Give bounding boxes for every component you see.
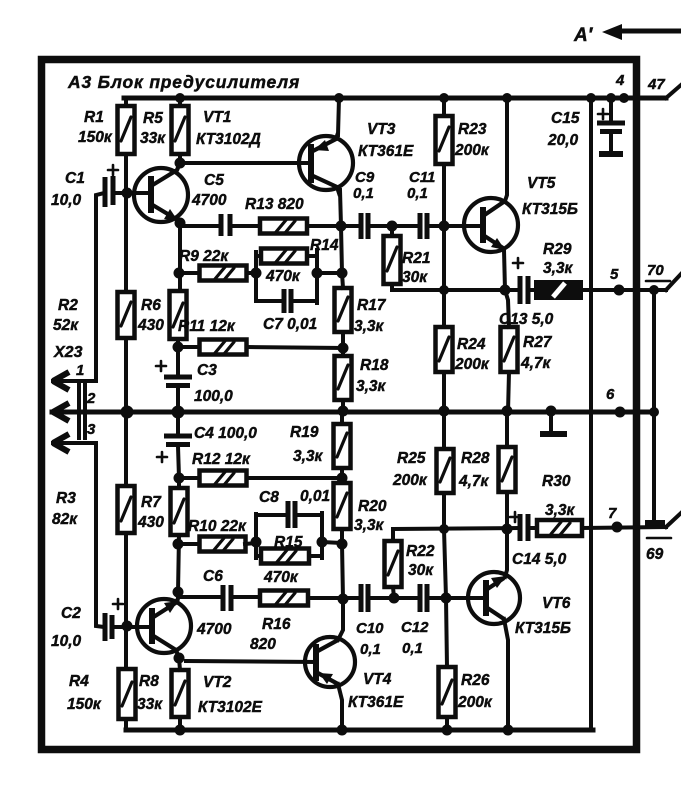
node R8 on bottom rail xyxy=(175,725,186,736)
node VT2 emitter xyxy=(173,587,184,598)
resistor R27 xyxy=(501,327,518,372)
svg-text:R4: R4 xyxy=(69,673,89,690)
wire R6 bottom xyxy=(176,339,180,374)
capacitor C15 xyxy=(609,98,613,151)
svg-text:4700: 4700 xyxy=(191,192,227,209)
node R10 line junction xyxy=(337,539,348,550)
resistor R30 xyxy=(537,520,582,536)
svg-text:200к: 200к xyxy=(454,142,490,159)
svg-text:4700: 4700 xyxy=(196,621,232,638)
capacitor C13 xyxy=(520,276,528,304)
node bracket right xyxy=(312,268,323,279)
wire C14 to R30 xyxy=(530,526,537,530)
svg-text:10,0: 10,0 xyxy=(51,192,82,209)
node R2 on rail xyxy=(121,406,134,419)
resistor R1 xyxy=(118,106,135,154)
node pin5 outside xyxy=(614,285,625,296)
wire R27 stubs xyxy=(505,290,509,412)
wire R18 bottom to rail xyxy=(341,400,345,412)
svg-text:VT4: VT4 xyxy=(363,671,392,688)
svg-text:200к: 200к xyxy=(457,694,493,711)
svg-text:С10: С10 xyxy=(356,620,384,637)
node VT3 collector on C9 line xyxy=(336,221,347,232)
wire R9 left xyxy=(178,271,199,275)
svg-text:3,3к: 3,3к xyxy=(354,517,385,534)
svg-text:5: 5 xyxy=(610,266,619,283)
svg-text:А′: А′ xyxy=(573,25,594,46)
wire R3 stubs xyxy=(124,412,128,671)
svg-text:А3 Блок предусилителя: А3 Блок предусилителя xyxy=(67,72,300,92)
svg-text:R3: R3 xyxy=(56,490,76,507)
wire C2 to VT2 base xyxy=(114,625,152,629)
wire R10 left xyxy=(178,542,199,546)
node VT3 emitter on rail xyxy=(334,93,344,103)
svg-text:R21: R21 xyxy=(402,250,430,267)
wire R10 right to bracket xyxy=(245,543,256,544)
svg-text:3,3к: 3,3к xyxy=(293,448,324,465)
svg-text:1: 1 xyxy=(76,362,84,379)
wire R17 stubs xyxy=(342,273,343,356)
wire R12 left xyxy=(179,476,199,480)
svg-text:R6: R6 xyxy=(141,297,161,314)
svg-text:820: 820 xyxy=(250,636,276,653)
svg-text:R12 12к: R12 12к xyxy=(192,451,251,468)
node R10 bracket left xyxy=(251,537,262,548)
capacitor C6 xyxy=(223,585,231,611)
svg-text:X23: X23 xyxy=(53,344,83,361)
svg-text:69: 69 xyxy=(646,546,664,563)
connector pin bars 2-3 xyxy=(79,416,85,438)
wire R14/C7 parallel bracket xyxy=(256,250,342,303)
wire R2 bottom to rail xyxy=(124,338,128,412)
svg-text:R17: R17 xyxy=(357,297,387,314)
wire column A upper xyxy=(124,154,128,292)
svg-text:52к: 52к xyxy=(53,317,79,334)
svg-text:R11 12к: R11 12к xyxy=(178,318,236,335)
node R12 at R19/R20 xyxy=(337,473,348,484)
wire R11 right xyxy=(247,347,343,348)
wire R4 bottom xyxy=(124,719,128,730)
capacitor C3 xyxy=(164,377,192,386)
resistor R3 xyxy=(118,486,135,533)
svg-text:0,01: 0,01 xyxy=(300,488,330,505)
svg-text:С1: С1 xyxy=(65,170,85,187)
svg-text:R28: R28 xyxy=(461,450,490,467)
wire C6 line left xyxy=(178,593,222,597)
svg-text:КТ3102Д: КТ3102Д xyxy=(196,131,261,148)
capacitor C7 xyxy=(284,289,291,313)
node R10 on column B xyxy=(173,539,184,550)
svg-text:4: 4 xyxy=(615,72,625,89)
wire pin5 to border xyxy=(581,288,666,292)
svg-text:3,3к: 3,3к xyxy=(545,502,576,519)
svg-text:33к: 33к xyxy=(140,130,166,147)
wire X23 pin1 xyxy=(53,193,104,381)
node VT2 base xyxy=(122,621,133,632)
svg-text:47: 47 xyxy=(647,76,665,93)
svg-text:С14 5,0: С14 5,0 xyxy=(512,551,567,568)
node VT4 on bottom rail xyxy=(337,725,348,736)
svg-text:20,0: 20,0 xyxy=(547,132,579,149)
wire X23 pin2 arrow xyxy=(53,403,69,421)
svg-text:КТ315Б: КТ315Б xyxy=(515,620,571,637)
wire R23 stubs xyxy=(442,98,446,226)
wire R12 right xyxy=(247,476,342,480)
node R14 line junction xyxy=(337,268,348,279)
svg-text:150к: 150к xyxy=(78,129,113,146)
node pin7 outside xyxy=(612,522,623,533)
node pin7/R28 column xyxy=(502,524,513,535)
wire R5 stubs xyxy=(178,98,182,164)
resistor R29 xyxy=(536,282,581,298)
svg-text:КТ3102Е: КТ3102Е xyxy=(198,699,263,716)
wire C8/R15 parallel bracket xyxy=(256,513,342,558)
svg-text:КТ315Б: КТ315Б xyxy=(522,201,578,218)
wire top supply rail (pin 4) xyxy=(124,96,666,101)
resistor R8 xyxy=(172,670,189,717)
svg-text:R7: R7 xyxy=(141,494,162,511)
capacitor C10 xyxy=(361,584,368,612)
svg-text:2: 2 xyxy=(86,390,96,407)
svg-text:0,1: 0,1 xyxy=(353,185,374,202)
wire R9 right to bracket xyxy=(247,271,256,275)
resistor R6 xyxy=(170,291,187,339)
svg-text:R15: R15 xyxy=(274,534,303,551)
wire arrow to A' xyxy=(620,29,681,34)
wire R1 to rail xyxy=(124,98,128,106)
wire VT6 emitter up xyxy=(505,529,507,577)
wire VT1 collector to VT3 base xyxy=(180,161,311,165)
resistor R19 xyxy=(334,424,351,468)
node R27 on rail xyxy=(502,406,513,417)
node R5 top on rail xyxy=(175,93,185,103)
node pin7/R25 column xyxy=(439,524,449,534)
svg-text:R23: R23 xyxy=(458,121,487,138)
border frame of block A3 xyxy=(42,60,637,750)
svg-text:R1: R1 xyxy=(84,109,104,126)
svg-text:4,7к: 4,7к xyxy=(458,473,490,490)
capacitor C14 xyxy=(520,514,528,541)
wire R20 bottom xyxy=(342,529,343,599)
svg-text:3: 3 xyxy=(87,421,96,438)
resistor R12 xyxy=(200,471,247,486)
svg-text:R30: R30 xyxy=(542,473,571,490)
node VT4 collector junction xyxy=(338,594,349,605)
node 6 junction T xyxy=(546,406,557,417)
svg-text:С15: С15 xyxy=(551,110,580,127)
resistor R18 xyxy=(335,356,352,400)
svg-text:7: 7 xyxy=(608,505,617,522)
svg-text:VT1: VT1 xyxy=(203,109,231,126)
svg-text:С8: С8 xyxy=(259,489,279,506)
node VT1 collector xyxy=(175,158,186,169)
svg-text:R27: R27 xyxy=(523,334,553,351)
wire C10 to C12 xyxy=(370,596,419,600)
svg-text:R25: R25 xyxy=(397,450,426,467)
wire C12 to VT6 base xyxy=(429,596,486,600)
node pin5/VT5 emitter xyxy=(500,285,511,296)
node R21 top xyxy=(387,221,398,232)
capacitor C11 xyxy=(420,213,427,239)
wire C4 bottom xyxy=(178,446,179,478)
wire R25 stubs xyxy=(444,412,446,598)
capacitor C8 xyxy=(288,501,295,528)
node R26 top junction xyxy=(441,593,452,604)
wire pin7 line xyxy=(393,528,518,529)
node R18 on rail xyxy=(338,406,349,417)
svg-text:R2: R2 xyxy=(58,297,78,314)
node VT5 collector on rail xyxy=(502,93,512,103)
connector pin bars 1-2 xyxy=(79,385,85,408)
resistor R15 xyxy=(261,549,309,564)
resistor R20 xyxy=(334,483,351,529)
resistor R7 xyxy=(171,488,188,535)
node R11 line junction xyxy=(338,343,349,354)
svg-text:100,0: 100,0 xyxy=(194,388,233,405)
svg-text:R10 22к: R10 22к xyxy=(188,518,247,535)
svg-text:R8: R8 xyxy=(139,673,159,690)
capacitor C2 xyxy=(105,613,112,641)
svg-text:430: 430 xyxy=(137,317,164,334)
wire C6 to R16 xyxy=(233,595,260,599)
svg-text:VT5: VT5 xyxy=(527,175,556,192)
wire number 69 xyxy=(647,537,671,540)
svg-text:470к: 470к xyxy=(263,569,299,586)
resistor R24 xyxy=(436,327,453,372)
resistor R17 xyxy=(335,288,352,332)
resistor R14 xyxy=(261,249,307,264)
wire C1 right to base xyxy=(115,191,151,195)
wire R19 top to rail xyxy=(340,412,344,478)
wire R24 stubs xyxy=(442,226,446,412)
node R22 bottom xyxy=(389,593,400,604)
svg-text:470к: 470к xyxy=(265,268,301,285)
svg-text:150к: 150к xyxy=(67,696,102,713)
wire C13 to R29 xyxy=(530,288,536,292)
svg-text:R20: R20 xyxy=(358,498,387,515)
capacitor C9 xyxy=(361,213,368,239)
svg-text:С7 0,01: С7 0,01 xyxy=(263,316,317,333)
wire C11 to VT5 base xyxy=(429,224,483,228)
svg-text:С11: С11 xyxy=(409,169,435,186)
capacitor C5 xyxy=(221,214,230,236)
resistor R23 xyxy=(436,116,453,164)
svg-text:С4 100,0: С4 100,0 xyxy=(194,425,257,442)
wire C5 to R13 xyxy=(232,224,260,228)
node C11/R23 junction xyxy=(439,221,450,232)
svg-text:0,1: 0,1 xyxy=(360,641,381,658)
wire mid rail node 2/6 xyxy=(52,410,654,415)
svg-text:R5: R5 xyxy=(143,110,163,127)
svg-text:4,7к: 4,7к xyxy=(520,355,552,372)
svg-text:С9: С9 xyxy=(355,169,375,186)
svg-text:VT2: VT2 xyxy=(203,674,232,691)
svg-text:R24: R24 xyxy=(457,336,486,353)
svg-text:VТ6: VТ6 xyxy=(542,595,571,612)
svg-text:10,0: 10,0 xyxy=(51,633,82,650)
svg-text:6: 6 xyxy=(606,386,615,403)
svg-text:КТ361Е: КТ361Е xyxy=(348,694,404,711)
svg-text:0,1: 0,1 xyxy=(407,185,428,202)
wire bottom rail xyxy=(126,728,593,733)
wire VT3 emitter to rail xyxy=(338,98,339,135)
resistor R26 xyxy=(439,667,456,717)
node pin5/R24 column xyxy=(439,285,449,295)
resistor R25 xyxy=(437,449,454,493)
wire VT5 emitter down xyxy=(504,250,505,290)
svg-text:R26: R26 xyxy=(461,672,490,689)
node R11 on column B xyxy=(173,342,184,353)
wire R16 right to VT4 junction xyxy=(308,596,359,600)
wire R11 left xyxy=(178,345,199,349)
node near border on rail xyxy=(619,93,629,103)
resistor R2 xyxy=(118,292,135,338)
node ext bus pin6 xyxy=(649,407,659,417)
node VT2 collector xyxy=(174,653,185,664)
resistor R21 xyxy=(384,236,401,284)
node R26 on bottom rail xyxy=(442,725,453,736)
wire R13 to C9 xyxy=(307,224,359,228)
wire R21 stubs and pin5 line left xyxy=(392,226,518,290)
resistor R13 xyxy=(260,219,307,234)
svg-text:R13 820: R13 820 xyxy=(245,196,304,213)
node pin6 outside xyxy=(615,407,626,418)
node R25 on rail xyxy=(439,406,450,417)
wire X23 pin3 xyxy=(53,443,104,627)
svg-text:3,3к: 3,3к xyxy=(354,318,385,335)
svg-text:R18: R18 xyxy=(360,357,389,374)
svg-text:200к: 200к xyxy=(392,472,428,489)
svg-text:30к: 30к xyxy=(402,269,428,286)
wire C9 to C11 xyxy=(370,224,418,228)
node R9 bracket left xyxy=(251,268,262,279)
svg-text:R14: R14 xyxy=(310,237,339,254)
wire C5 line left xyxy=(180,224,220,228)
wire VT5 collector to rail xyxy=(505,98,507,201)
wire R26 stubs xyxy=(446,598,447,730)
svg-text:3,3к: 3,3к xyxy=(543,260,574,277)
capacitor C4 xyxy=(176,412,180,434)
wire VT3 collector down xyxy=(340,190,342,273)
svg-text:3,3к: 3,3к xyxy=(356,378,387,395)
resistor R10 xyxy=(200,537,246,552)
svg-text:R22: R22 xyxy=(406,543,435,560)
node bracket right xyxy=(317,537,328,548)
wire VT4 base lead xyxy=(186,661,316,662)
svg-text:С2: С2 xyxy=(61,605,81,622)
node R9 on column B xyxy=(174,268,185,279)
svg-text:С3: С3 xyxy=(197,362,217,379)
resistor R28 xyxy=(499,447,516,492)
wire R22 stubs xyxy=(393,529,394,598)
svg-text:VT3: VT3 xyxy=(367,121,396,138)
node VT1 emitter xyxy=(175,218,186,229)
wire pin4 bend outside xyxy=(666,85,681,98)
wire R7 stubs xyxy=(178,478,179,593)
node C15 on rail xyxy=(606,93,616,103)
wire external bus down xyxy=(652,290,656,520)
node VT1 base xyxy=(122,188,133,199)
node C3 on rail xyxy=(172,406,185,419)
resistor R22 xyxy=(385,541,402,587)
wire R8 stubs xyxy=(179,658,180,730)
wire inner right bus column xyxy=(589,98,593,730)
resistor R9 xyxy=(200,266,247,281)
node R12 on column B xyxy=(174,473,185,484)
svg-text:200к: 200к xyxy=(454,356,490,373)
svg-text:КТ361Е: КТ361Е xyxy=(358,143,414,160)
node VT6 on bottom rail xyxy=(503,725,514,736)
capacitor C12 xyxy=(420,584,427,612)
svg-text:0,1: 0,1 xyxy=(402,640,423,657)
svg-text:R19: R19 xyxy=(290,424,319,441)
wire VT4 emitter down xyxy=(338,684,342,730)
svg-text:33к: 33к xyxy=(137,696,163,713)
node ext bus pin5 xyxy=(649,285,659,295)
svg-text:R9 22к: R9 22к xyxy=(179,248,229,265)
resistor R5 xyxy=(172,106,189,154)
wire C3 bottom to rail xyxy=(176,387,180,412)
svg-text:430: 430 xyxy=(137,514,164,531)
svg-text:С6: С6 xyxy=(203,568,223,585)
wire column B emitter down xyxy=(178,223,182,291)
svg-text:82к: 82к xyxy=(52,511,78,528)
wire R28 stubs xyxy=(505,412,509,529)
svg-text:30к: 30к xyxy=(408,562,434,579)
svg-text:С5: С5 xyxy=(204,172,224,189)
svg-text:R29: R29 xyxy=(543,241,572,258)
svg-text:R16: R16 xyxy=(262,616,291,633)
capacitor C1 xyxy=(105,176,113,207)
resistor R4 xyxy=(119,669,136,719)
wire VT6 collector down xyxy=(504,619,508,730)
svg-text:С12: С12 xyxy=(401,619,429,636)
svg-text:70: 70 xyxy=(647,262,664,279)
wire VT4 collector up xyxy=(338,599,343,640)
node inner bus on rail xyxy=(586,93,596,103)
resistor R11 xyxy=(200,340,247,355)
resistor R16 xyxy=(260,591,308,606)
node R23 top on rail xyxy=(439,93,449,103)
wire pin7 to border xyxy=(582,527,666,528)
